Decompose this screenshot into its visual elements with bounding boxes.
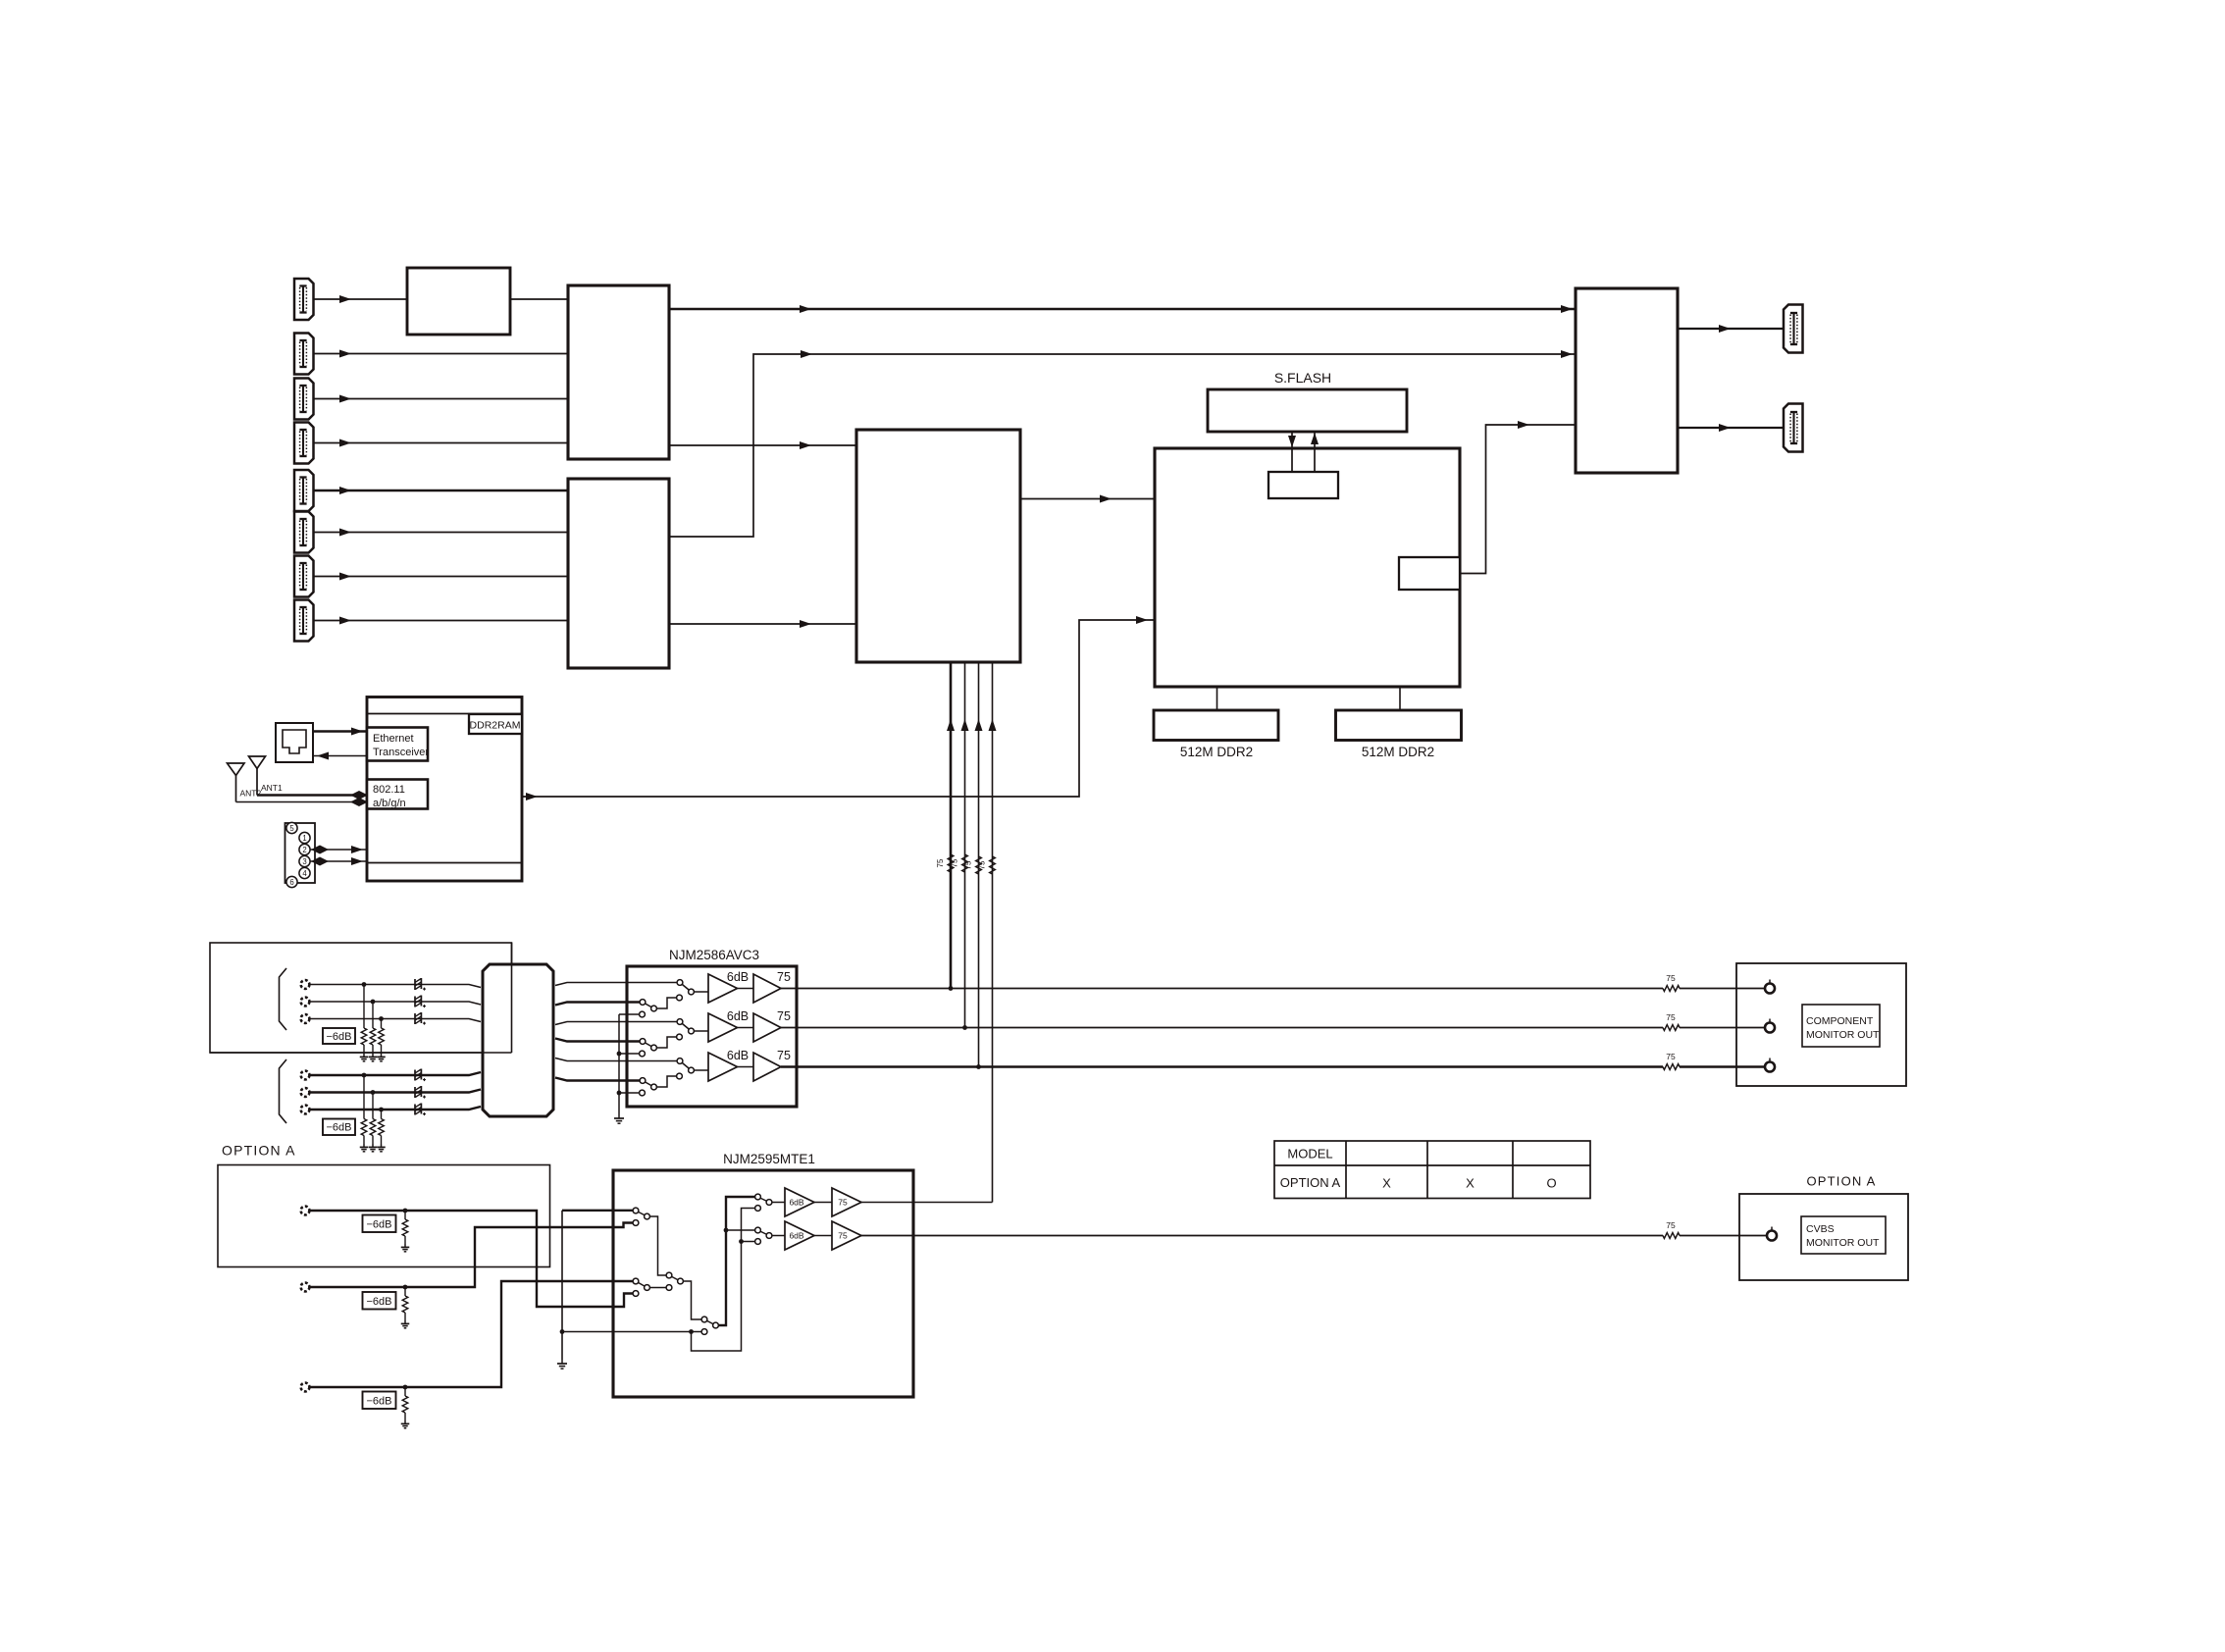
component input jack Pb2	[301, 1088, 310, 1097]
resistor 75 on Y vertical	[948, 854, 954, 872]
wire ANT1 to 802.11	[257, 794, 367, 796]
stub to amp2 throw1	[726, 1229, 755, 1231]
coupling cap on Pr1	[414, 1013, 416, 1024]
wire pin2 to module	[310, 849, 367, 851]
coupling cap on Y2	[414, 1070, 416, 1081]
video scaler block	[856, 430, 1020, 662]
SoC main processor block	[1155, 448, 1460, 687]
svg-text:75: 75	[777, 970, 791, 984]
component out jack Pr	[1769, 1058, 1771, 1062]
antenna ANT1	[249, 756, 266, 769]
module inner top line	[367, 713, 522, 715]
module inner bottom line	[367, 862, 522, 864]
row Y aux select switch	[643, 1003, 654, 1009]
wire 6dB to 75 row Y	[738, 988, 754, 990]
512M DDR2 box right	[1336, 710, 1462, 741]
CVBS monitor wire	[861, 1235, 1663, 1237]
svg-text:NJM2595MTE1: NJM2595MTE1	[723, 1152, 815, 1166]
wire scaler to SoC	[1020, 498, 1155, 500]
junction tap CVBS2	[403, 1285, 408, 1290]
HDMI input connector J7	[294, 556, 314, 597]
resistor 75 on CVBS vertical	[990, 856, 996, 874]
512M DDR2 box left	[1154, 710, 1278, 741]
wire CVBS jack1 to NJM2595	[310, 1211, 634, 1307]
resistor 75 on Pb vertical	[962, 854, 968, 872]
pin 3	[299, 855, 310, 866]
DDR2RAM box	[469, 714, 522, 734]
svg-text:512M DDR2: 512M DDR2	[1180, 745, 1253, 759]
wire from jack Y2 to cable bundle	[310, 1072, 482, 1075]
svg-text:75: 75	[1666, 1220, 1676, 1230]
pin 1	[299, 832, 310, 843]
svg-text:75: 75	[838, 1231, 848, 1241]
ground tie vertical NJM2595 inputs	[561, 1211, 563, 1360]
wire CVBS jack2 to NJM2595	[310, 1223, 634, 1288]
svg-text:X: X	[1382, 1176, 1391, 1191]
svg-text:75: 75	[1666, 1012, 1676, 1022]
svg-text:COMPONENT: COMPONENT	[1806, 1015, 1874, 1027]
svg-text:Transceiver: Transceiver	[373, 747, 429, 758]
HDMI switch block A	[568, 285, 669, 459]
svg-text:75: 75	[936, 858, 945, 867]
svg-text:DDR2RAM: DDR2RAM	[470, 720, 521, 732]
brace component group 1	[280, 968, 287, 1030]
component out jack Pb	[1769, 1019, 1771, 1023]
pin 5	[286, 822, 297, 833]
svg-text:75: 75	[964, 860, 973, 869]
S.FLASH box	[1208, 389, 1407, 432]
wire from J6	[314, 532, 569, 534]
network module block	[367, 697, 522, 882]
HDMI input connector J8	[294, 600, 314, 642]
HDMI input connector J4	[294, 423, 314, 464]
equalizer box (unlabeled)	[407, 268, 510, 335]
CVBS return vertical wire from scaler	[992, 662, 994, 1203]
svg-text:−6dB: −6dB	[327, 1122, 352, 1134]
switch group D	[704, 1319, 716, 1325]
svg-text:75: 75	[1666, 973, 1676, 983]
802.11 a/b/g/n box	[367, 780, 428, 809]
HDMI output connector 1	[1784, 305, 1803, 353]
resistor 75 CVBS out	[1663, 1233, 1680, 1239]
-6dB box component group 2	[323, 1119, 355, 1136]
brace component group 2	[280, 1059, 287, 1123]
svg-text:MODEL: MODEL	[1287, 1147, 1332, 1162]
svg-text:MONITOR OUT: MONITOR OUT	[1806, 1237, 1880, 1249]
wire from jack Pb1 to cable bundle	[310, 1002, 482, 1005]
junction Pr wire	[976, 1064, 981, 1069]
row Pb input select switch	[680, 1022, 692, 1032]
component out jack Y	[1769, 980, 1771, 984]
switch A common wire	[649, 1216, 666, 1275]
Y monitor wire	[781, 988, 1663, 990]
model option table	[1274, 1141, 1590, 1199]
svg-text:ANT2: ANT2	[240, 789, 262, 799]
amp1 6dB amplifier	[785, 1188, 814, 1216]
HDMI input connector J5	[294, 470, 314, 511]
component input jack Pr2	[301, 1106, 310, 1114]
COMPONENT MONITOR OUT box	[1736, 963, 1906, 1086]
wire module to SoC (control)	[522, 620, 1155, 797]
svg-text:512M DDR2: 512M DDR2	[1362, 745, 1434, 759]
ground NJM2595 tie	[561, 1360, 563, 1364]
svg-text:−6dB: −6dB	[367, 1219, 392, 1231]
svg-text:OPTION A: OPTION A	[222, 1143, 296, 1159]
resistor 75 Y out	[1663, 986, 1680, 992]
svg-text:Ethernet: Ethernet	[373, 733, 414, 745]
bundle wire out 6	[555, 1078, 640, 1081]
CVBS bypass wire down	[692, 1209, 755, 1352]
svg-text:−6dB: −6dB	[367, 1396, 392, 1408]
OPTION A enclosure rect	[218, 1165, 550, 1267]
svg-text:−6dB: −6dB	[327, 1031, 352, 1043]
component input jack Y2	[301, 1071, 310, 1080]
junction Pb wire	[962, 1025, 967, 1030]
wire from J2	[314, 353, 569, 355]
svg-text:a/b/g/n: a/b/g/n	[373, 798, 406, 809]
-6dB box CVBS 3	[363, 1392, 396, 1410]
resistor 75 Pb out	[1663, 1025, 1680, 1031]
amp2 75 driver	[832, 1221, 861, 1250]
svg-text:6dB: 6dB	[727, 970, 749, 984]
switch group C	[669, 1275, 681, 1281]
-6dB box CVBS 1	[363, 1215, 396, 1233]
wire 6dB to 75 row Pb	[738, 1027, 754, 1029]
component input jack Pr1	[301, 1014, 310, 1023]
switch group B common wire	[649, 1287, 666, 1289]
switch group C common wire	[684, 1281, 701, 1319]
wire from jack Y1 to cable bundle	[310, 985, 482, 988]
svg-text:O: O	[1546, 1176, 1556, 1191]
wire S.FLASH to SoC (down)	[1291, 432, 1293, 472]
wire amp1 out to scaler	[861, 1202, 993, 1204]
CVBS input jack 2	[301, 1283, 310, 1292]
ground NJM2586 inputs	[618, 1114, 620, 1118]
wire CVBS jack3 to NJM2595	[310, 1281, 634, 1387]
Pr monitor wire	[781, 1065, 1663, 1068]
svg-text:75: 75	[978, 860, 987, 869]
svg-text:X: X	[1466, 1176, 1475, 1191]
junction tap Y2	[362, 1073, 367, 1078]
HDMI input connector J2	[294, 334, 314, 375]
coupling cap on Pb2	[414, 1087, 416, 1098]
-6dB box CVBS 2	[363, 1292, 396, 1310]
wire amp1 switch to 6dB	[772, 1202, 785, 1204]
switch group A	[636, 1211, 647, 1216]
wire 6dB to 75 row Pr	[738, 1066, 754, 1068]
svg-text:−6dB: −6dB	[367, 1296, 392, 1308]
svg-text:75: 75	[951, 858, 959, 867]
svg-text:802.11: 802.11	[373, 784, 405, 796]
termination resistor CVBS 3	[404, 1387, 406, 1396]
bundle wire out 2	[555, 1003, 640, 1006]
flash controller box inside SoC	[1268, 472, 1338, 498]
COMPONENT MONITOR OUT label box	[1802, 1005, 1880, 1047]
termination resistors group 1	[363, 985, 365, 1029]
row Pb 6dB amplifier	[708, 1013, 738, 1042]
junction tap Pr1	[379, 1016, 384, 1021]
wire ground tie to switch A	[562, 1210, 633, 1212]
svg-text:S.FLASH: S.FLASH	[1274, 370, 1331, 386]
wire amp2 6dB to 75	[814, 1235, 832, 1237]
row Y 6dB amplifier	[708, 974, 738, 1003]
amp1 75 driver	[832, 1188, 861, 1216]
wire amp1 6dB to 75	[814, 1202, 832, 1204]
component input enclosure rect	[210, 943, 512, 1053]
Ethernet Transceiver box	[367, 728, 428, 761]
amp1 input switch	[758, 1197, 770, 1203]
HDMI out interface box on SoC	[1399, 557, 1460, 590]
switch group D common wire up	[719, 1197, 755, 1325]
row Pr 6dB amplifier	[708, 1053, 738, 1081]
Pb vertical wire from scaler	[964, 662, 966, 1028]
svg-text:2: 2	[302, 846, 306, 854]
wire SoC to 512M DDR2 right	[1399, 687, 1401, 710]
bundle wire out 1	[555, 983, 677, 986]
row Y input select switch	[680, 983, 692, 993]
CVBS MONITOR OUT label box	[1801, 1216, 1886, 1254]
row Pb switch wiring	[654, 1037, 678, 1048]
HDMI transmitter block	[1576, 288, 1678, 473]
coupling cap on Pb1	[414, 997, 416, 1007]
wire HDMI TX to output connector 1	[1678, 328, 1784, 330]
bundle wire out 3	[555, 1022, 677, 1025]
svg-text:OPTION A: OPTION A	[1280, 1175, 1341, 1190]
svg-text:75: 75	[838, 1198, 848, 1208]
svg-text:CVBS: CVBS	[1806, 1223, 1835, 1235]
svg-text:NJM2586AVC3: NJM2586AVC3	[669, 948, 759, 962]
coupling cap on Pr2	[414, 1105, 416, 1115]
CVBS direct input wire	[562, 1331, 701, 1333]
svg-text:6: 6	[289, 878, 293, 887]
svg-text:ANT1: ANT1	[261, 783, 283, 793]
amp2 6dB amplifier	[785, 1221, 814, 1250]
wire SoC to S.FLASH (up)	[1314, 432, 1316, 472]
wire EQ to HDMI switch A	[510, 298, 568, 300]
row Y switch wiring	[654, 998, 678, 1008]
junction tap Pb2	[371, 1090, 376, 1095]
row Pr 75 ohm driver	[753, 1053, 781, 1081]
HDMI input connector J1	[294, 279, 314, 320]
junction tap Pb1	[371, 1000, 376, 1005]
svg-text:75: 75	[777, 1009, 791, 1023]
wire SoC to 512M DDR2 left	[1216, 687, 1218, 710]
wire from jack Pr1 to cable bundle	[310, 1019, 482, 1022]
junction scaler Y wire	[949, 986, 954, 991]
HDMI input connector J6	[294, 512, 314, 553]
CVBS input jack 1	[301, 1207, 310, 1215]
Pb monitor wire	[781, 1027, 1663, 1029]
svg-text:MONITOR OUT: MONITOR OUT	[1806, 1029, 1880, 1041]
pin 4	[299, 867, 310, 878]
svg-text:6dB: 6dB	[727, 1049, 749, 1062]
CVBS MONITOR OUT box	[1739, 1194, 1908, 1280]
wire HDMI TX to output connector 2	[1678, 427, 1784, 429]
component input jack Pb1	[301, 998, 310, 1007]
termination resistors group 2	[363, 1075, 365, 1119]
row Pr aux select switch	[643, 1081, 654, 1088]
svg-text:OPTION A: OPTION A	[1806, 1174, 1876, 1189]
wire from J5	[314, 490, 569, 492]
wire from jack Pr2 to cable bundle	[310, 1107, 482, 1110]
component enclosure rect edge over sleeve	[511, 943, 513, 1053]
6-pin connector	[285, 823, 316, 883]
wire SoC interface to HDMI TX block	[1460, 425, 1576, 574]
wire from J3	[314, 398, 569, 400]
svg-text:6dB: 6dB	[727, 1009, 749, 1023]
bundle wire out 4	[555, 1039, 640, 1042]
wire RJ45 to Ethernet	[313, 730, 367, 732]
wire amp2 switch to 6dB	[772, 1235, 785, 1237]
stub to amp2 throw2	[742, 1241, 755, 1243]
antenna ANT2	[228, 763, 245, 776]
wire block B to scaler block	[669, 623, 856, 625]
termination resistor CVBS 1	[404, 1211, 406, 1219]
junction tap Pr2	[379, 1108, 384, 1112]
termination resistor CVBS 2	[404, 1287, 406, 1296]
svg-text:75: 75	[777, 1049, 791, 1062]
row Y 75 ohm driver	[753, 974, 781, 1003]
HDMI switch block B	[568, 479, 669, 668]
wire block A to scaler block	[669, 444, 856, 446]
HDMI input connector J3	[294, 379, 314, 420]
-6dB box component group 1	[323, 1028, 355, 1044]
wire from J1	[314, 298, 408, 300]
wire ANT2 to 802.11	[236, 801, 368, 803]
CVBS/Y vertical wire from scaler (thick)	[950, 662, 953, 989]
CVBS out jack	[1771, 1227, 1773, 1231]
junction tap CVBS3	[403, 1385, 408, 1390]
pin 2	[299, 844, 310, 854]
wire block B out up to HDMI TX block	[669, 354, 1576, 537]
row Pb aux select switch	[643, 1042, 654, 1049]
svg-text:3: 3	[302, 857, 306, 866]
wire from jack Pb2 to cable bundle	[310, 1090, 482, 1093]
pin 6	[286, 876, 297, 887]
row Pb 75 ohm driver	[753, 1013, 781, 1042]
component input jack Y1	[301, 980, 310, 989]
coupling cap on Y1	[414, 979, 416, 990]
Pr vertical wire from scaler	[978, 662, 980, 1067]
NJM2586AVC3 block	[627, 966, 797, 1107]
HDMI output connector 2	[1784, 404, 1803, 452]
wire from J8	[314, 620, 569, 622]
resistor 75 Pr out	[1663, 1064, 1680, 1070]
NJM2595MTE1 block	[613, 1170, 913, 1397]
svg-text:5: 5	[289, 824, 294, 833]
resistor 75 on Pr vertical	[976, 856, 982, 874]
cable bundle sleeve	[483, 964, 553, 1116]
wire pin3 to module	[310, 860, 367, 862]
junction tap CVBS1	[403, 1209, 408, 1213]
svg-text:4: 4	[302, 869, 307, 878]
RJ45 connector	[276, 723, 313, 762]
wire from J4	[314, 442, 569, 444]
svg-text:6dB: 6dB	[789, 1198, 803, 1208]
CVBS input jack 3	[301, 1383, 310, 1392]
wire Ethernet to RJ45	[313, 755, 367, 757]
row Pr switch wiring	[654, 1076, 678, 1087]
switch group B	[636, 1281, 647, 1288]
svg-text:75: 75	[1666, 1052, 1676, 1061]
wire block A out to HDMI TX block (top)	[669, 308, 1576, 310]
svg-text:1: 1	[302, 834, 306, 843]
amp2 input switch	[758, 1230, 770, 1236]
wire from J7	[314, 576, 569, 578]
svg-text:6dB: 6dB	[789, 1231, 803, 1241]
ground tie vertical NJM2586	[618, 1014, 620, 1114]
row Pr input select switch	[680, 1061, 692, 1071]
bundle wire out 5	[555, 1058, 677, 1061]
junction tap Y1	[362, 982, 367, 987]
